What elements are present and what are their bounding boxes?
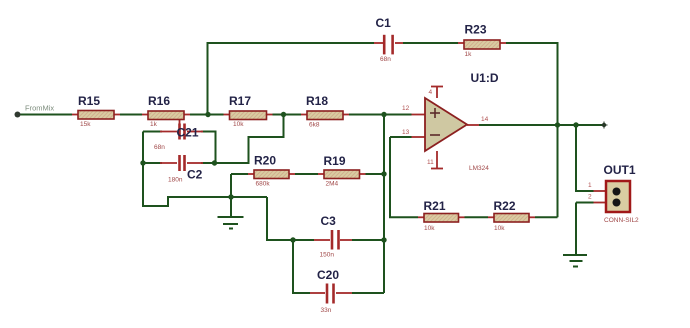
svg-text:13: 13 bbox=[402, 129, 410, 136]
svg-text:R22: R22 bbox=[494, 199, 516, 213]
svg-text:C2: C2 bbox=[187, 168, 203, 182]
svg-text:10k: 10k bbox=[233, 121, 244, 128]
svg-text:680k: 680k bbox=[256, 181, 271, 188]
svg-text:180n: 180n bbox=[168, 177, 183, 184]
svg-text:1k: 1k bbox=[150, 121, 158, 128]
svg-text:4: 4 bbox=[429, 89, 433, 96]
svg-text:11: 11 bbox=[427, 159, 434, 166]
svg-text:R17: R17 bbox=[229, 94, 251, 108]
svg-text:C20: C20 bbox=[317, 268, 339, 282]
svg-text:10k: 10k bbox=[424, 225, 435, 232]
svg-text:CONN-SIL2: CONN-SIL2 bbox=[604, 217, 639, 224]
svg-text:R23: R23 bbox=[465, 23, 487, 37]
svg-text:R18: R18 bbox=[306, 94, 328, 108]
svg-text:6k8: 6k8 bbox=[309, 122, 320, 129]
svg-text:12: 12 bbox=[402, 105, 410, 112]
svg-text:OUT1: OUT1 bbox=[604, 163, 636, 177]
svg-text:C21: C21 bbox=[177, 126, 199, 140]
svg-text:U1:D: U1:D bbox=[471, 71, 499, 85]
svg-text:C3: C3 bbox=[321, 214, 337, 228]
svg-text:LM324: LM324 bbox=[469, 165, 489, 172]
svg-text:R21: R21 bbox=[424, 199, 446, 213]
svg-text:14: 14 bbox=[481, 116, 489, 123]
svg-text:C1: C1 bbox=[376, 16, 392, 30]
svg-text:10k: 10k bbox=[494, 225, 505, 232]
svg-text:1k: 1k bbox=[465, 51, 473, 58]
svg-text:68n: 68n bbox=[380, 56, 391, 63]
svg-text:R19: R19 bbox=[324, 154, 346, 168]
svg-text:15k: 15k bbox=[80, 121, 91, 128]
svg-text:2M4: 2M4 bbox=[326, 181, 339, 188]
svg-text:FromMix: FromMix bbox=[25, 104, 54, 113]
svg-text:2: 2 bbox=[588, 194, 592, 201]
svg-text:1: 1 bbox=[588, 182, 592, 189]
svg-text:R15: R15 bbox=[78, 94, 100, 108]
svg-text:R20: R20 bbox=[254, 154, 276, 168]
svg-text:33n: 33n bbox=[321, 307, 332, 314]
svg-text:150n: 150n bbox=[320, 252, 335, 259]
svg-text:68n: 68n bbox=[154, 144, 165, 151]
svg-text:R16: R16 bbox=[148, 94, 170, 108]
